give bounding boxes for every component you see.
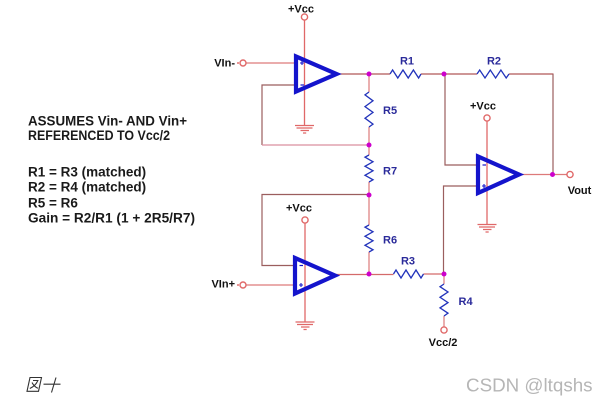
wire U1 feedback loop (inverting input to node A): [262, 85, 369, 145]
terminal Vin+: [237, 282, 246, 288]
svg-text:ASSUMES Vin- AND Vin+: ASSUMES Vin- AND Vin+: [28, 114, 187, 129]
node junction U2 output/R6/R3: [367, 272, 372, 277]
resistor R1: [390, 70, 421, 78]
node D junction R3/R4/U3 +in: [442, 272, 447, 277]
resistor R6: [365, 225, 373, 252]
op-amp U2 + pin mark: [299, 283, 303, 287]
terminal +Vcc (U2): [302, 217, 308, 223]
op-amp U2 - pin mark: [300, 265, 304, 267]
resistor R3: [394, 270, 424, 278]
net label +Vcc (U3): [470, 101, 496, 113]
net label VIn-: [214, 58, 235, 70]
wire U1 output bus to R1: [338, 73, 390, 75]
svg-text:R2 = R4 (matched): R2 = R4 (matched): [28, 180, 146, 195]
wire Vin+ input to U2 + pin: [247, 284, 296, 286]
wire U2 output bus to R3: [336, 274, 394, 276]
resistor R7 value label: [383, 166, 397, 178]
svg-text:+Vcc: +Vcc: [288, 4, 314, 16]
node junction R5/R7/U1 feedback: [367, 143, 372, 148]
wire R3 right to node D: [424, 273, 445, 275]
svg-text:R3: R3: [401, 256, 415, 268]
wire R4 stubs: [443, 274, 445, 327]
op-amp U3: [478, 157, 519, 194]
svg-text:R6: R6: [383, 235, 397, 247]
net label VIn+: [211, 279, 235, 291]
node junction U3 output/feedback: [550, 172, 555, 177]
resistor R6 value label: [383, 235, 397, 247]
svg-text:R1: R1: [400, 56, 414, 68]
ground below U2: [296, 322, 315, 330]
net label +Vcc (U1): [288, 4, 314, 16]
net label +Vcc (U2): [286, 203, 312, 215]
wire R1 right to node B: [421, 73, 445, 75]
caption figure 10 (hand-drawn CJK glyphs): [27, 378, 61, 393]
resistor R3 value label: [401, 256, 415, 268]
op-amp U3 + pin mark: [482, 184, 486, 188]
resistor R2: [477, 70, 509, 78]
ground below U1: [295, 126, 314, 134]
svg-text:Gain = R2/R1 (1 + 2R5/R7): Gain = R2/R1 (1 + 2R5/R7): [28, 211, 195, 226]
resistor R5 value label: [383, 105, 397, 117]
wire R2 right to feedback corner: [509, 73, 554, 75]
wire +Vcc drop through U1 to ground: [304, 21, 306, 126]
op-amp U1: [296, 57, 337, 92]
resistor R4: [440, 284, 448, 316]
wire +Vcc drop through U2 to ground: [304, 224, 306, 323]
svg-text:R1 = R3 (matched): R1 = R3 (matched): [28, 165, 146, 180]
wire U3 output to Vout: [519, 174, 567, 176]
svg-text:Vcc/2: Vcc/2: [429, 337, 458, 349]
wire R6 stubs: [368, 195, 370, 274]
svg-text:+Vcc: +Vcc: [470, 101, 496, 113]
resistor R5: [365, 92, 373, 127]
op-amp U3 - pin mark: [483, 164, 487, 166]
wire +Vcc drop through U3 to ground: [486, 122, 488, 225]
resistor R1 value label: [400, 56, 414, 68]
svg-text:REFERENCED TO Vcc/2: REFERENCED TO Vcc/2: [28, 128, 170, 143]
wire U3 noninverting input down to node D: [444, 186, 479, 274]
terminal +Vcc (U3): [484, 115, 490, 121]
svg-text:R2: R2: [487, 56, 501, 68]
watermark CSDN @ltqshs: [466, 375, 593, 396]
op-amp U1 + pin mark: [300, 61, 304, 65]
wire node B down to U3 inverting input: [445, 75, 478, 166]
net label Vcc/2: [429, 337, 458, 349]
wire R2 feedback down to output node: [552, 74, 554, 175]
resistor R4 value label: [459, 296, 474, 308]
terminal Vin-: [237, 60, 246, 66]
node A junction (R1/R5/U1 output): [367, 72, 372, 77]
wire R5 stubs: [368, 74, 370, 145]
wire Vin- input to U1 + pin: [246, 62, 296, 64]
wire R7 stubs: [368, 145, 370, 195]
annotation text block: [28, 114, 195, 226]
svg-text:+Vcc: +Vcc: [286, 203, 312, 215]
terminal Vcc/2: [441, 327, 447, 333]
svg-text:VIn+: VIn+: [211, 279, 235, 291]
svg-text:CSDN @ltqshs: CSDN @ltqshs: [466, 375, 593, 396]
svg-text:R5: R5: [383, 105, 397, 117]
resistor R7: [365, 155, 373, 182]
node C junction R7/R6/U2 feedback: [367, 193, 372, 198]
svg-text:R7: R7: [383, 166, 397, 178]
op-amp U2: [295, 258, 335, 294]
ground below U3: [478, 225, 497, 233]
node B junction (R1/R2/U3 -in): [442, 72, 447, 77]
net label Vout: [568, 185, 592, 197]
wire node B to R2: [444, 73, 477, 75]
svg-text:R4: R4: [459, 296, 474, 308]
op-amp U1 - pin mark: [301, 84, 305, 86]
terminal +Vcc (top, U1): [301, 14, 307, 20]
terminal Vout: [567, 171, 573, 177]
svg-text:Vout: Vout: [568, 185, 592, 197]
wire U2 feedback loop (node C to inverting input): [262, 195, 369, 266]
svg-text:VIn-: VIn-: [214, 58, 235, 70]
svg-text:R5 = R6: R5 = R6: [28, 196, 78, 211]
resistor R2 value label: [487, 56, 501, 68]
